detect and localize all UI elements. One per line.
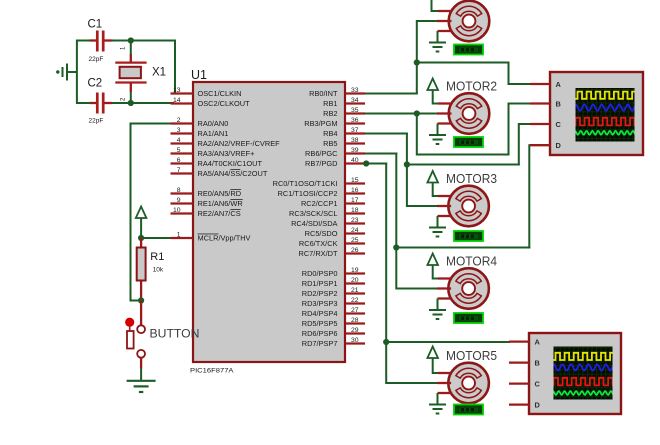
- svg-text:D: D: [535, 400, 541, 409]
- svg-text:13: 13: [173, 87, 181, 94]
- svg-text:U1: U1: [191, 68, 207, 82]
- power arrow MOTOR3: [427, 171, 438, 183]
- pin 40 stub (right): [345, 162, 365, 164]
- pin 18 stub (right): [345, 212, 365, 214]
- pin 23 stub (right): [345, 222, 365, 224]
- svg-text:RA1/AN1: RA1/AN1: [198, 129, 229, 138]
- wire arrow stem MOTOR4: [432, 265, 434, 280]
- ground of MOTOR2: [429, 135, 446, 144]
- junction crystal pin2 node: [128, 100, 134, 106]
- wire node to scope A corner: [417, 62, 510, 64]
- wire left rail to C2 left: [77, 102, 91, 104]
- pin 26 stub (right): [345, 252, 365, 254]
- wire to MOTOR3 top pin: [433, 195, 439, 197]
- svg-text:3: 3: [177, 127, 181, 134]
- wire C1 right to crystal node 1: [112, 40, 132, 42]
- wire to MOTOR3 middle terminal: [407, 205, 437, 207]
- svg-text:OSC2/CLKOUT: OSC2/CLKOUT: [198, 99, 251, 108]
- motor MOTOR3 symbol: [448, 186, 489, 227]
- svg-text:RB0/INT: RB0/INT: [309, 89, 338, 98]
- capacitor C1: [90, 31, 113, 52]
- junction crystal pin1 node: [128, 37, 134, 43]
- svg-text:RA2/AN2/VREF-/CVREF: RA2/AN2/VREF-/CVREF: [198, 139, 281, 148]
- svg-text:2: 2: [177, 117, 181, 124]
- svg-text:RE2/AN7/CS: RE2/AN7/CS: [198, 209, 241, 218]
- svg-text:MOTOR5: MOTOR5: [446, 349, 497, 363]
- junction at RB7 pin: [363, 160, 369, 166]
- svg-text:6: 6: [177, 157, 181, 164]
- power arrow MOTOR5: [427, 347, 438, 359]
- svg-text:RE1/AN6/WR: RE1/AN6/WR: [198, 199, 243, 208]
- oscilloscope SCOPE2 input pins A B C D: [509, 342, 529, 405]
- svg-text:29: 29: [351, 327, 359, 334]
- wire MOTOR2 bottom terminal to ground: [437, 124, 439, 135]
- svg-text:MCLR/Vpp/THV: MCLR/Vpp/THV: [198, 234, 251, 243]
- svg-text:8: 8: [177, 187, 181, 194]
- ground of MOTOR4: [429, 310, 446, 319]
- speed display of MOTOR4: [454, 313, 483, 323]
- svg-text:RC7/RX/DT: RC7/RX/DT: [298, 249, 337, 258]
- svg-text:27: 27: [351, 307, 359, 314]
- SCOPE1 channel B waveform (blue sine): [574, 105, 636, 111]
- wire into scope1 channel B: [509, 103, 532, 105]
- pin 17 stub (right): [345, 202, 365, 204]
- wire button to ground: [140, 368, 142, 381]
- svg-text:RD5/PSP5: RD5/PSP5: [302, 319, 338, 328]
- SCOPE1 channel D waveform (green sine): [574, 131, 636, 135]
- wire RB6 down to node: [395, 153, 397, 249]
- pin 22 stub (right): [345, 302, 365, 304]
- svg-text:40: 40: [351, 157, 359, 164]
- oscilloscope SCOPE1 channel labels: [556, 80, 562, 150]
- wire MOTOR3 bottom terminal to ground: [437, 216, 439, 227]
- power arrow above R1: [136, 207, 147, 219]
- wire RA0 to R1 bottom node: [131, 300, 142, 302]
- svg-text:MOTOR2: MOTOR2: [446, 80, 497, 94]
- svg-text:R1: R1: [150, 251, 164, 263]
- wire RB4 down to node: [406, 133, 408, 166]
- SCOPE1 channel A waveform (yellow square): [574, 92, 637, 99]
- oscilloscope SCOPE1 body: [550, 72, 643, 155]
- motor MOTOR2 terminal pins: [437, 104, 452, 124]
- wire MCLR node to pin 1 MCLR: [141, 237, 173, 239]
- pin 25 stub (right): [345, 242, 365, 244]
- wire MOTOR1 bottom terminal to ground: [437, 31, 439, 42]
- svg-text:10: 10: [173, 207, 181, 214]
- svg-text:RC0/T1OSO/T1CKI: RC0/T1OSO/T1CKI: [273, 179, 338, 188]
- ground (crystal, rotated left): [56, 64, 77, 81]
- svg-text:RD1/PSP1: RD1/PSP1: [302, 279, 338, 288]
- svg-text:7: 7: [177, 167, 181, 174]
- wire riser x417 to motor1: [416, 20, 418, 95]
- pin 39 stub (right): [345, 152, 365, 154]
- svg-text:D: D: [556, 141, 562, 150]
- pin 34 stub (right): [345, 102, 365, 104]
- pin 10 stub (left): [171, 212, 194, 214]
- svg-text:35: 35: [351, 107, 359, 114]
- svg-text:RC3/SCK/SCL: RC3/SCK/SCL: [289, 209, 337, 218]
- svg-text:B: B: [556, 99, 561, 108]
- svg-text:RD0/PSP0: RD0/PSP0: [302, 269, 338, 278]
- svg-text:B: B: [535, 358, 540, 367]
- pin 36 stub (right): [345, 122, 365, 124]
- wire left rail vertical: [76, 40, 78, 105]
- svg-text:26: 26: [351, 247, 359, 254]
- power arrow MOTOR2: [427, 79, 438, 91]
- svg-text:30: 30: [351, 337, 359, 344]
- resistor R1: [137, 238, 146, 301]
- wire into scope1 channel C: [519, 123, 531, 125]
- svg-text:4: 4: [177, 137, 181, 144]
- svg-text:RB4: RB4: [323, 129, 337, 138]
- svg-text:25: 25: [351, 237, 359, 244]
- pin 14 stub (left): [171, 102, 194, 104]
- wire RB4 right: [365, 133, 408, 135]
- svg-text:RB2: RB2: [323, 109, 337, 118]
- svg-text:RC6/TX/CK: RC6/TX/CK: [299, 239, 338, 248]
- wire C2 right to crystal node 2: [112, 102, 132, 104]
- crystal X1: [115, 54, 146, 92]
- wire C1 left to left rail: [77, 40, 91, 42]
- svg-text:X1: X1: [152, 66, 166, 78]
- svg-text:RD3/PSP3: RD3/PSP3: [302, 299, 338, 308]
- svg-text:23: 23: [351, 217, 359, 224]
- oscilloscope SCOPE1 screen: [576, 88, 635, 142]
- wire to MOTOR2 top pin: [433, 103, 439, 105]
- svg-text:RD6/PSP6: RD6/PSP6: [302, 329, 338, 338]
- wire to MOTOR5 middle terminal: [386, 382, 437, 384]
- svg-text:C2: C2: [88, 78, 103, 90]
- wire node down to MOTOR5: [385, 341, 387, 384]
- pin 9 stub (left): [171, 202, 194, 204]
- wire node down to MOTOR4: [395, 247, 397, 290]
- svg-text:24: 24: [351, 227, 359, 234]
- svg-text:RB5: RB5: [323, 139, 337, 148]
- wire across to scope B riser: [417, 154, 510, 156]
- svg-text:A: A: [535, 337, 541, 346]
- svg-text:33: 33: [351, 87, 359, 94]
- wire down to scope A level: [508, 63, 510, 86]
- svg-text:15: 15: [351, 177, 359, 184]
- svg-text:MOTOR3: MOTOR3: [446, 172, 497, 186]
- pin 37 stub (right): [345, 132, 365, 134]
- wire MOTOR5 bottom terminal to ground: [437, 393, 439, 404]
- svg-text:19: 19: [351, 267, 359, 274]
- motor MOTOR2 symbol: [449, 93, 490, 134]
- speed display of MOTOR2: [454, 137, 483, 147]
- motor MOTOR4 symbol: [448, 268, 489, 309]
- pin 16 stub (right): [345, 192, 365, 194]
- svg-text:RA3/AN3/VREF+: RA3/AN3/VREF+: [198, 149, 255, 158]
- svg-text:RC5/SDO: RC5/SDO: [305, 229, 338, 238]
- pin 6 stub (left): [171, 162, 194, 164]
- wire node2 to OSC2/CLKOUT pin 14: [130, 102, 174, 104]
- capacitor C2: [90, 93, 113, 114]
- junction node RB6/scope D/MOTOR4: [393, 244, 399, 250]
- pin 33 stub (right): [345, 92, 365, 94]
- svg-text:20: 20: [351, 277, 359, 284]
- power arrow MOTOR4: [427, 254, 438, 266]
- pin 38 stub (right): [345, 142, 365, 144]
- svg-text:18: 18: [351, 207, 359, 214]
- svg-text:C: C: [535, 379, 541, 388]
- motor MOTOR1 symbol: [449, 1, 490, 42]
- wire node to scope C riser: [407, 164, 520, 166]
- SCOPE2 channel A waveform (yellow square): [552, 353, 615, 360]
- svg-text:RE0/AN5/RD: RE0/AN5/RD: [198, 189, 242, 198]
- svg-text:36: 36: [351, 117, 359, 124]
- wire to MOTOR1 middle terminal: [417, 20, 437, 22]
- svg-text:C1: C1: [88, 19, 103, 31]
- svg-text:BUTTON: BUTTON: [150, 327, 200, 341]
- motor MOTOR4 terminal pins: [437, 279, 451, 299]
- svg-text:39: 39: [351, 147, 359, 154]
- speed display of MOTOR5: [454, 405, 483, 415]
- pin 2 stub (left): [171, 122, 194, 124]
- svg-text:RA0/AN0: RA0/AN0: [198, 119, 229, 128]
- svg-text:RD7/PSP7: RD7/PSP7: [302, 339, 338, 348]
- pin 1 stub (left): [171, 237, 194, 239]
- svg-text:22pF: 22pF: [89, 56, 104, 63]
- svg-text:10k: 10k: [153, 267, 164, 274]
- wire RB2 branch down: [416, 114, 418, 156]
- pin 13 stub (left): [171, 92, 194, 94]
- svg-text:PIC16F877A: PIC16F877A: [190, 368, 234, 375]
- motor MOTOR1 terminal pins: [437, 11, 452, 31]
- svg-text:14: 14: [173, 97, 181, 104]
- wire node to scope2 channel A: [386, 341, 510, 343]
- svg-text:22: 22: [351, 297, 359, 304]
- junction node RB4/scope C/MOTOR3: [404, 161, 410, 167]
- pin 35 stub (right): [345, 112, 365, 114]
- svg-text:OSC1/CLKIN: OSC1/CLKIN: [198, 89, 242, 98]
- svg-text:RC4/SDI/SDA: RC4/SDI/SDA: [291, 219, 337, 228]
- SCOPE1 channel C waveform (red square): [574, 118, 640, 126]
- svg-text:A: A: [556, 80, 562, 89]
- motor MOTOR5 terminal pins: [437, 373, 451, 393]
- svg-text:RB7/PGD: RB7/PGD: [305, 159, 337, 168]
- pin 27 stub (right): [345, 312, 365, 314]
- SCOPE2 channel D waveform (green sine): [552, 391, 614, 395]
- wire node down to MOTOR3: [406, 164, 408, 208]
- pin 3 stub (left): [171, 132, 194, 134]
- motor MOTOR5 symbol: [448, 363, 489, 404]
- pin 28 stub (right): [345, 322, 365, 324]
- wire arrow stem MOTOR5: [432, 358, 434, 375]
- pin 4 stub (left): [171, 142, 194, 144]
- wire node1 to OSC1 corner: [130, 40, 176, 42]
- wire to MOTOR4 top pin: [433, 278, 439, 280]
- oscilloscope SCOPE2 body: [529, 333, 621, 414]
- ground of MOTOR3: [429, 228, 446, 237]
- ground of MOTOR5: [429, 405, 446, 414]
- wire arrow stem MOTOR3: [432, 182, 434, 197]
- wire RA0/AN0 pin 2: [130, 123, 174, 125]
- motor MOTOR3 terminal pins: [437, 196, 451, 216]
- wire into pin 13: [174, 93, 176, 95]
- wire into scope1 channel A: [509, 83, 532, 85]
- pin 20 stub (right): [345, 282, 365, 284]
- pin 15 stub (right): [345, 182, 365, 184]
- svg-text:C: C: [556, 120, 562, 129]
- oscilloscope SCOPE2 screen: [554, 347, 613, 400]
- svg-text:5: 5: [177, 147, 181, 154]
- speed display of MOTOR1: [454, 45, 483, 55]
- wire MOTOR1 top terminal from top edge: [431, 0, 433, 12]
- svg-text:RB6/PGC: RB6/PGC: [305, 149, 338, 158]
- wire to MOTOR4 middle terminal: [396, 288, 437, 290]
- oscilloscope SCOPE2 channel labels: [535, 337, 541, 409]
- wire node1 down to X1 pin 1: [130, 40, 132, 55]
- svg-text:RA5/AN4/SS/C2OUT: RA5/AN4/SS/C2OUT: [198, 169, 268, 178]
- wire riser up to scope B: [508, 103, 510, 156]
- svg-text:RC2/CCP1: RC2/CCP1: [301, 199, 338, 208]
- wire to MOTOR5 top pin: [433, 372, 439, 374]
- svg-text:RD2/PSP2: RD2/PSP2: [302, 289, 338, 298]
- junction node RB7/scope2 A/MOTOR5: [383, 339, 389, 345]
- svg-text:38: 38: [351, 137, 359, 144]
- junction R1 bottom / button node: [138, 297, 144, 303]
- wire RA0 vertical down: [130, 123, 132, 302]
- oscilloscope SCOPE1 input pins A B C D: [530, 84, 550, 145]
- junction R1 top / MCLR node: [138, 235, 144, 241]
- svg-text:34: 34: [351, 97, 359, 104]
- wire RB6 right: [365, 153, 397, 155]
- wire down to OSC1/CLKIN: [174, 41, 176, 95]
- button: [125, 301, 145, 369]
- svg-text:21: 21: [351, 287, 359, 294]
- svg-text:9: 9: [177, 197, 181, 204]
- svg-text:MOTOR4: MOTOR4: [446, 255, 497, 269]
- svg-text:RB3/PGM: RB3/PGM: [304, 119, 337, 128]
- wire MOTOR4 bottom terminal to ground: [437, 299, 439, 310]
- ground of MOTOR1: [429, 43, 446, 52]
- wire corner to MOTOR1 top pin: [432, 10, 439, 12]
- ground (button): [127, 381, 156, 392]
- op U1 PIC16F877A microcontroller body: [193, 82, 345, 362]
- wire RB7 right: [365, 163, 387, 165]
- wire into scope1 channel D: [529, 144, 531, 146]
- wire power arrow stem to MCLR node: [140, 218, 142, 238]
- svg-text:16: 16: [351, 187, 359, 194]
- pin 19 stub (right): [345, 272, 365, 274]
- svg-text:RA4/T0CKI/C1OUT: RA4/T0CKI/C1OUT: [198, 159, 263, 168]
- SCOPE2 channel B waveform (blue sine): [552, 364, 614, 370]
- pin 8 stub (left): [171, 192, 194, 194]
- junction node RB2/scope B: [414, 110, 420, 116]
- wire RB0 to riser: [365, 93, 418, 95]
- wire riser up to scope C: [518, 123, 520, 166]
- SCOPE2 channel C waveform (red square): [552, 378, 618, 386]
- pin 24 stub (right): [345, 232, 365, 234]
- wire X1 pin2 down to node2: [130, 92, 132, 103]
- wire riser up to scope D: [528, 144, 530, 248]
- pin 29 stub (right): [345, 332, 365, 334]
- pin 30 stub (right): [345, 342, 365, 344]
- junction node RB0/scope A: [414, 59, 420, 65]
- svg-text:17: 17: [351, 197, 359, 204]
- pin 7 stub (left): [171, 172, 194, 174]
- svg-text:22pF: 22pF: [89, 118, 104, 125]
- pin 5 stub (left): [171, 152, 194, 154]
- svg-text:RB1: RB1: [323, 99, 337, 108]
- speed display of MOTOR3: [454, 231, 483, 241]
- svg-text:1: 1: [177, 231, 181, 238]
- svg-text:RC1/T1OSI/CCP2: RC1/T1OSI/CCP2: [278, 189, 338, 198]
- svg-text:28: 28: [351, 317, 359, 324]
- wire RB7 down to scope2 A node: [385, 163, 387, 344]
- wire node across to scope D riser: [396, 247, 530, 249]
- svg-text:37: 37: [351, 127, 359, 134]
- svg-text:RD4/PSP4: RD4/PSP4: [302, 309, 338, 318]
- pin 21 stub (right): [345, 292, 365, 294]
- wire RB2 to MOTOR2 middle terminal: [365, 113, 437, 115]
- wire arrow stem MOTOR2: [432, 90, 434, 105]
